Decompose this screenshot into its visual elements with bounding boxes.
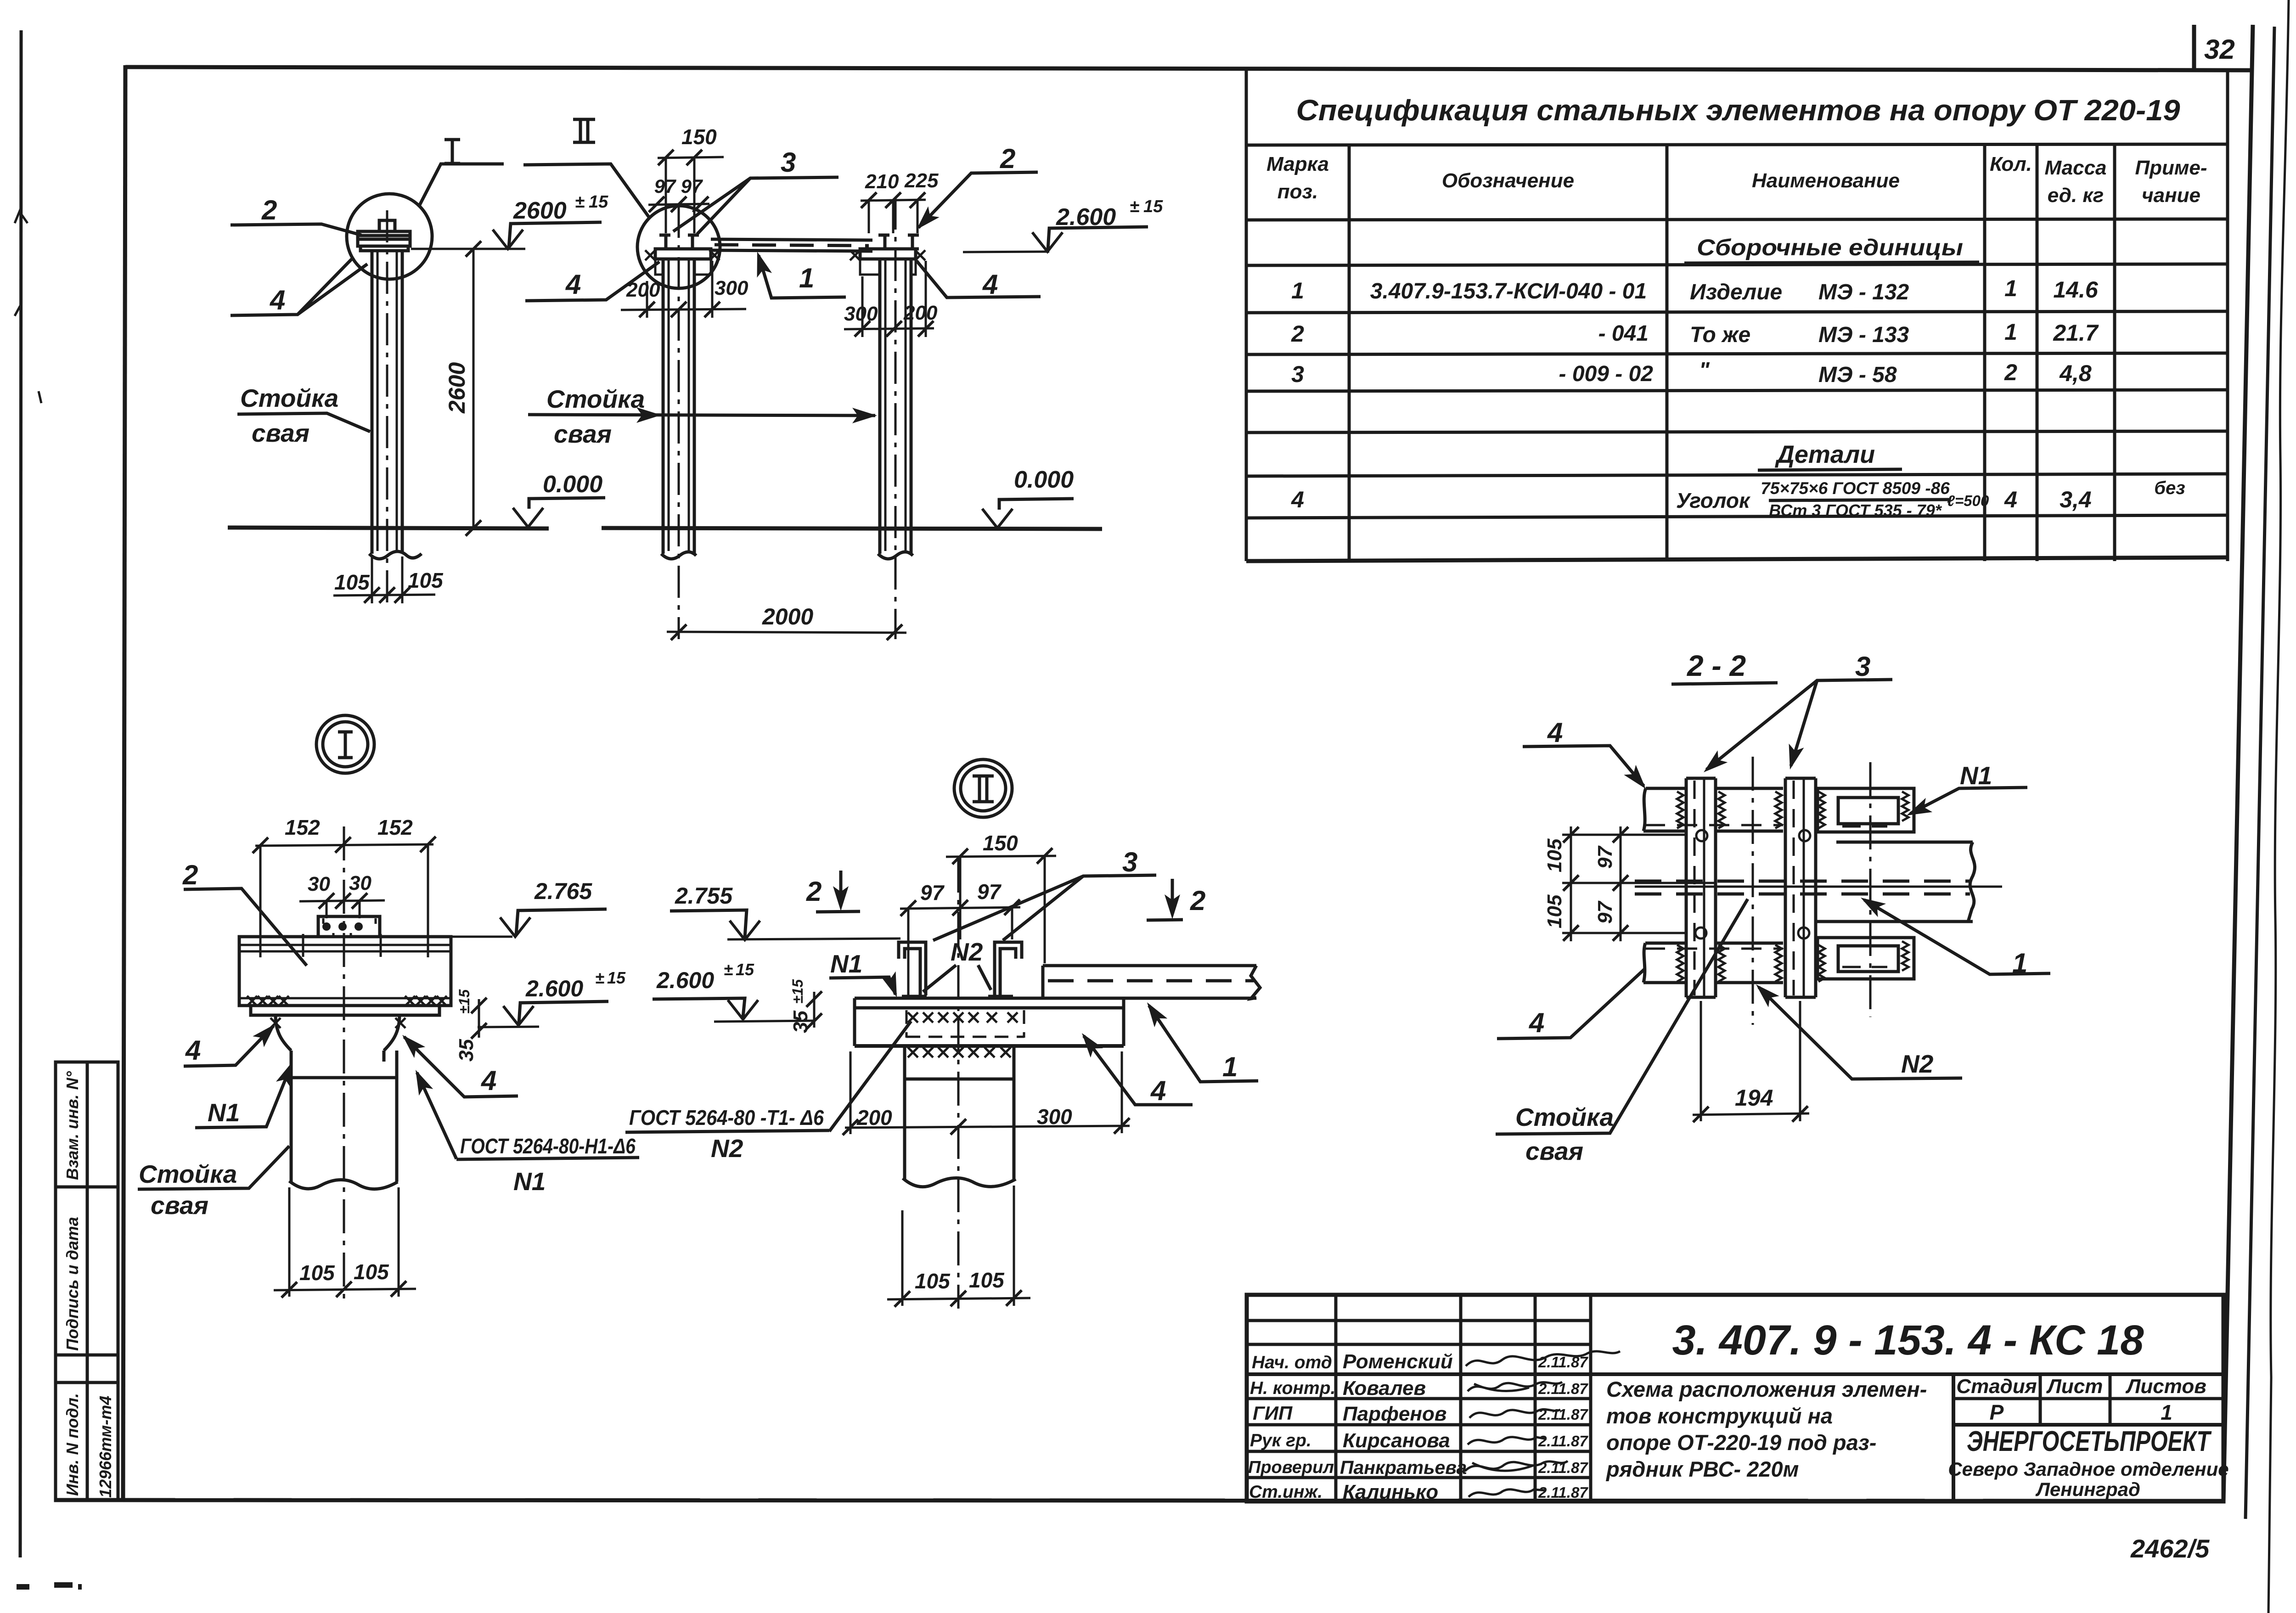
svg-text:То же: То же [1690, 323, 1750, 347]
svg-text:2.765: 2.765 [534, 878, 592, 904]
svg-text:2.600: 2.600 [525, 976, 583, 1001]
stray mark left mid [39, 391, 41, 403]
svg-text:2600: 2600 [444, 362, 470, 414]
svg-text:Кирсанова: Кирсанова [1343, 1429, 1450, 1452]
svg-text:1: 1 [2161, 1400, 2172, 1424]
svg-text:97: 97 [1594, 900, 1616, 924]
clip part3 right (detail II) [995, 942, 1022, 995]
svg-text:4: 4 [185, 1035, 201, 1066]
cap bottom flange [251, 1006, 439, 1015]
svg-text:±15: ±15 [456, 989, 473, 1014]
clip part3 left (detail II) [899, 942, 926, 995]
svg-text:105: 105 [408, 568, 444, 592]
svg-text:ЭНЕРГОСЕТЬПРОЕКТ: ЭНЕРГОСЕТЬПРОЕКТ [1967, 1426, 2212, 1457]
hidden dash in bottom bars [1645, 948, 1783, 950]
svg-text:свая: свая [252, 419, 310, 447]
svg-text:МЭ - 58: МЭ - 58 [1818, 363, 1897, 387]
svg-text:N2: N2 [711, 1134, 743, 1163]
svg-text:15: 15 [607, 968, 626, 987]
svg-text:Стойка: Стойка [139, 1160, 237, 1188]
svg-text:105: 105 [969, 1268, 1005, 1292]
svg-text:Схема расположения элемен-: Схема расположения элемен- [1606, 1377, 1927, 1401]
svg-text:3: 3 [781, 147, 796, 178]
detail circle II [637, 206, 720, 288]
ground line (view I) [228, 528, 549, 528]
svg-text:Роменский: Роменский [1343, 1350, 1453, 1373]
svg-text:ед. кг: ед. кг [2048, 184, 2104, 207]
svg-text:14.6: 14.6 [2053, 277, 2099, 303]
pile stand II-right outline [880, 259, 911, 554]
clip part3 II-left-a [659, 235, 670, 249]
svg-text:Кол.: Кол. [1990, 153, 2032, 175]
svg-text:105: 105 [1543, 838, 1566, 872]
svg-text:Лист: Лист [2046, 1375, 2103, 1398]
svg-text:4: 4 [565, 269, 581, 300]
svg-text:тов конструкций на: тов конструкций на [1606, 1404, 1833, 1428]
pile stand II-left outline [663, 259, 694, 554]
pile stand (detail II) [905, 1046, 1014, 1180]
svg-text:N2: N2 [1901, 1050, 1934, 1078]
svg-text:1: 1 [2004, 319, 2017, 345]
svg-text:152: 152 [377, 815, 413, 839]
svg-text:2.11.87: 2.11.87 [1538, 1459, 1588, 1476]
svg-text:±: ± [1130, 197, 1139, 216]
svg-text:2: 2 [261, 195, 277, 225]
svg-text:Спецификация стальных элемен: Спецификация стальных элементов на опору… [1296, 94, 2180, 127]
svg-text:35: 35 [455, 1039, 478, 1062]
svg-text:97: 97 [1594, 845, 1616, 869]
svg-text:32: 32 [2204, 34, 2235, 65]
bottom-left stray dashes [17, 1585, 82, 1587]
dimension 35+-15 (detail II) [813, 992, 816, 1028]
beam hidden edges dashed (section) [1635, 880, 1970, 883]
svg-text:4,8: 4,8 [2059, 360, 2092, 386]
svg-text:150: 150 [983, 831, 1018, 855]
svg-text:12966тм-т4: 12966тм-т4 [96, 1396, 115, 1498]
svg-text:2462/5: 2462/5 [2130, 1534, 2210, 1563]
clip part3 II-left-b [688, 235, 699, 249]
svg-text:105: 105 [299, 1261, 335, 1285]
svg-text:свая: свая [1525, 1137, 1583, 1165]
svg-text:200: 200 [856, 1106, 892, 1130]
svg-text:2: 2 [1291, 321, 1304, 347]
pile I centreline [386, 210, 388, 602]
svg-text:Р: Р [1990, 1400, 2004, 1424]
svg-text:Приме-: Приме- [2135, 157, 2207, 179]
right top angle N1 (section) [1818, 788, 1914, 832]
svg-text:0.000: 0.000 [1014, 466, 1074, 493]
svg-text:N2: N2 [951, 938, 983, 966]
svg-text:Северо Западное отделение: Северо Западное отделение [1948, 1458, 2228, 1480]
svg-text:Подпись и дата: Подпись и дата [63, 1217, 82, 1351]
beam part1 (section) [1816, 842, 1973, 922]
svg-text:210: 210 [865, 170, 899, 193]
svg-text:±: ± [724, 960, 733, 979]
clip part3 II-right-a [878, 235, 889, 249]
cap II-left angle tabs [655, 259, 663, 275]
svg-text:105: 105 [915, 1269, 951, 1293]
svg-text:97: 97 [681, 175, 703, 197]
svg-text:1: 1 [1291, 278, 1304, 303]
vertical dimension 2600 [473, 249, 475, 528]
weld marks on caps [645, 250, 655, 260]
svg-text:2.11.87: 2.11.87 [1538, 1354, 1588, 1371]
beam hidden centreline dashes [715, 245, 869, 246]
svg-text:Ст.инж.: Ст.инж. [1249, 1482, 1322, 1502]
svg-text:300: 300 [1037, 1105, 1072, 1129]
svg-text:без: без [2154, 478, 2185, 498]
svg-text:0.000: 0.000 [543, 471, 602, 498]
centreline (detail II) [957, 859, 960, 1309]
svg-text:2000: 2000 [762, 604, 813, 629]
svg-text:свая: свая [554, 420, 612, 448]
svg-text:4: 4 [1529, 1007, 1544, 1038]
svg-text:4: 4 [270, 285, 285, 315]
hidden dash in top bars [1645, 824, 1783, 826]
view mark I with leader [445, 140, 460, 163]
paper scan edge [2268, 0, 2289, 1613]
cap plate II-left [655, 249, 711, 259]
svg-text:±: ± [595, 968, 604, 987]
svg-text:2: 2 [182, 860, 198, 890]
svg-text:Ковалев: Ковалев [1343, 1377, 1426, 1399]
svg-text:2.11.87: 2.11.87 [1538, 1433, 1588, 1450]
centrelines (section) [1752, 757, 1754, 1025]
cap plate II-right [860, 249, 916, 259]
svg-text:- 041: - 041 [1598, 321, 1649, 346]
weld zigzags (section) [1677, 792, 1908, 982]
svg-text:Ленинград: Ленинград [2035, 1478, 2140, 1500]
svg-text:150: 150 [681, 125, 717, 149]
left top angle bar (section) [1643, 788, 1686, 831]
left sidebar stamp boxes [56, 1062, 118, 1501]
svg-text:1: 1 [799, 263, 814, 293]
ground line (view II) [602, 528, 1102, 529]
stiffener plate left (section) [1686, 778, 1716, 997]
pile II-left bottom break [661, 552, 696, 559]
pile II-left centreline [678, 206, 680, 639]
pile II-right bottom break [878, 552, 913, 559]
title block grid [1247, 1295, 2223, 1501]
svg-text:Рук гр.: Рук гр. [1250, 1431, 1311, 1450]
svg-text:Панкратьева: Панкратьева [1340, 1457, 1467, 1478]
dimension 105 105 (view I) [333, 556, 435, 603]
svg-text:300: 300 [844, 303, 878, 325]
signatures [1465, 1351, 1620, 1497]
svg-text:2.11.87: 2.11.87 [1538, 1406, 1588, 1423]
svg-text:3: 3 [1855, 651, 1870, 682]
pile II-right centreline [895, 197, 897, 639]
svg-text:4: 4 [982, 269, 998, 300]
svg-text:4: 4 [481, 1065, 496, 1096]
cap assembly part2 on pile I [358, 220, 410, 251]
svg-text:Нач. отд: Нач. отд [1252, 1353, 1332, 1372]
svg-text:N1: N1 [1960, 761, 1992, 790]
svg-text:Взам. инв. N°: Взам. инв. N° [63, 1071, 82, 1180]
view mark II with leader [573, 119, 595, 142]
svg-text:Калинько: Калинько [1343, 1481, 1438, 1503]
svg-text:Инв. N подл.: Инв. N подл. [63, 1393, 82, 1496]
svg-text:Проверил: Проверил [1248, 1458, 1334, 1477]
svg-text:N1: N1 [830, 950, 862, 978]
svg-text:Обозначение: Обозначение [1442, 169, 1574, 192]
svg-text:2.755: 2.755 [675, 883, 733, 909]
svg-text:Листов: Листов [2125, 1375, 2206, 1398]
sheet frame right border [2223, 25, 2253, 1501]
svg-text:105: 105 [334, 570, 370, 594]
badge circle II [954, 759, 1012, 817]
cap plates (detail II) [855, 998, 1124, 1046]
svg-text:- 009 - 02: - 009 - 02 [1559, 362, 1654, 386]
svg-text:поз.: поз. [1277, 180, 1318, 203]
svg-text:4: 4 [1291, 487, 1304, 512]
svg-text:105: 105 [1543, 894, 1566, 928]
svg-text:75×75×6 ГОСТ 8509 -86: 75×75×6 ГОСТ 8509 -86 [1761, 479, 1950, 498]
pile stand I inner faces [377, 251, 397, 551]
svg-text:3: 3 [1122, 847, 1137, 877]
hidden angle outline (detail II) [906, 1010, 1024, 1038]
svg-text:4: 4 [2004, 487, 2017, 512]
svg-text:Детали: Детали [1775, 441, 1875, 468]
svg-text:97: 97 [977, 880, 1002, 904]
svg-text:1: 1 [2004, 275, 2017, 301]
svg-text:МЭ - 133: МЭ - 133 [1818, 323, 1909, 347]
svg-text:Масса: Масса [2044, 157, 2106, 179]
svg-text:ГОСТ 5264-80 -Т1- Δ6: ГОСТ 5264-80 -Т1- Δ6 [629, 1106, 824, 1130]
svg-text:Уголок: Уголок [1676, 489, 1751, 512]
svg-text:2: 2 [1000, 143, 1015, 174]
svg-text:ℓ=500: ℓ=500 [1947, 492, 1989, 509]
svg-text:4: 4 [1547, 717, 1563, 748]
svg-text:2600: 2600 [513, 197, 567, 224]
svg-text:±15: ±15 [789, 979, 806, 1004]
svg-text:2.11.87: 2.11.87 [1538, 1484, 1588, 1501]
svg-text:105: 105 [354, 1260, 389, 1284]
svg-text:300: 300 [715, 277, 748, 299]
right bottom angle (section) [1818, 938, 1914, 979]
svg-text:4: 4 [1150, 1075, 1166, 1106]
svg-text:Стадия: Стадия [1956, 1375, 2037, 1398]
svg-text:±: ± [575, 192, 585, 212]
beam part1 (detail II) [1029, 966, 1256, 998]
svg-text:Сборочные единицы: Сборочные единицы [1697, 235, 1963, 260]
dimension 35+-15 (detail I) [478, 999, 480, 1038]
detail circle I [347, 194, 432, 279]
svg-text:ВСт 3 ГОСТ 535 - 79*: ВСт 3 ГОСТ 535 - 79* [1769, 501, 1942, 520]
svg-text:ГИП: ГИП [1253, 1402, 1293, 1424]
svg-text:3: 3 [1291, 361, 1304, 387]
svg-text:1: 1 [1222, 1051, 1238, 1082]
cap body part2 (detail I) [239, 937, 451, 1006]
svg-text:2: 2 [2004, 360, 2017, 385]
svg-text:2: 2 [1190, 885, 1205, 916]
svg-text:Стойка: Стойка [1515, 1103, 1614, 1131]
svg-text:35: 35 [789, 1011, 812, 1033]
svg-text:15: 15 [589, 192, 608, 212]
mid bottom bar (section) [1716, 943, 1783, 983]
svg-text:Стойка: Стойка [240, 384, 338, 412]
beam part1 between piles [711, 239, 872, 251]
clip part3 II-right-b [908, 235, 919, 249]
pile stand (detail I) [291, 1051, 397, 1182]
svg-text:N1: N1 [513, 1167, 546, 1196]
badge circle I [316, 715, 374, 773]
svg-text:Изделие: Изделие [1690, 280, 1782, 304]
bolted tab on cap [318, 916, 380, 937]
svg-text:чание: чание [2142, 184, 2200, 207]
svg-text:15: 15 [736, 960, 754, 979]
svg-text:Н. контр.: Н. контр. [1250, 1378, 1335, 1398]
svg-text:97: 97 [920, 881, 945, 905]
pile I bottom break [369, 551, 422, 559]
bolt holes (section) [1696, 830, 1707, 841]
left bottom angle bar (section) [1643, 943, 1686, 983]
svg-text:2.600: 2.600 [656, 967, 714, 993]
right thin trim line [2245, 27, 2274, 1519]
dimension 105 97 pair left (section) [1562, 826, 1716, 941]
svg-text:3.407.9-153.7-КСИ-040 - 01: 3.407.9-153.7-КСИ-040 - 01 [1370, 279, 1647, 303]
svg-text:рядник РВС- 220м: рядник РВС- 220м [1605, 1457, 1799, 1481]
svg-text:Стойка: Стойка [546, 385, 645, 413]
svg-text:2.11.87: 2.11.87 [1538, 1380, 1588, 1397]
svg-text:194: 194 [1735, 1085, 1773, 1111]
svg-text:N1: N1 [208, 1098, 240, 1127]
svg-text:152: 152 [285, 815, 320, 839]
svg-text:": " [1699, 358, 1710, 382]
svg-text:свая: свая [151, 1191, 208, 1220]
specification table grid [1246, 70, 2228, 561]
mid top bar (section) [1716, 788, 1783, 831]
weld xxx row lower (detail II) [908, 1047, 1011, 1057]
svg-text:30: 30 [308, 873, 330, 895]
svg-text:225: 225 [904, 169, 939, 192]
sheet frame top border [125, 67, 2253, 70]
svg-text:Парфенов: Парфенов [1343, 1403, 1446, 1425]
sheet frame left border [123, 65, 125, 1501]
svg-text:2: 2 [806, 876, 822, 907]
svg-text:Марка: Марка [1266, 153, 1329, 175]
svg-text:МЭ - 132: МЭ - 132 [1818, 280, 1909, 304]
svg-text:ГОСТ 5264-80-Н1-Δ6: ГОСТ 5264-80-Н1-Δ6 [460, 1134, 636, 1158]
svg-text:Наименование: Наименование [1752, 169, 1900, 192]
stiffener plate right (section) [1785, 778, 1816, 997]
svg-text:30: 30 [349, 872, 371, 894]
svg-text:21.7: 21.7 [2053, 320, 2099, 346]
svg-text:опоре ОТ-220-19 под раз-: опоре ОТ-220-19 под раз- [1606, 1430, 1876, 1455]
sheet frame bottom border [55, 1500, 2224, 1501]
far-left paper binding line [20, 30, 21, 1557]
angle funnel part4 (detail I) [276, 1015, 400, 1051]
svg-text:3. 407. 9 - 153. 4 - КС 18: 3. 407. 9 - 153. 4 - КС 18 [1672, 1317, 2144, 1364]
svg-text:15: 15 [1143, 197, 1163, 216]
centreline (detail I) [343, 826, 345, 1300]
weld xxx row upper (detail II) [908, 1012, 1018, 1023]
svg-text:200: 200 [626, 279, 660, 301]
cap II-right angle tabs [860, 259, 880, 275]
pile stand I outline [372, 251, 402, 554]
svg-text:97: 97 [654, 175, 676, 197]
weld xxx rows on cap bottom [247, 996, 447, 1006]
svg-text:3,4: 3,4 [2060, 487, 2092, 512]
sheet number box [2194, 25, 2235, 70]
svg-text:2 - 2: 2 - 2 [1687, 649, 1746, 682]
binding line tick marks [15, 208, 28, 316]
